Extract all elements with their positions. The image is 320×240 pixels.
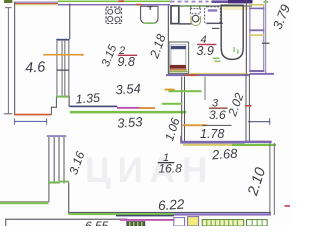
- svg-text:3.54: 3.54: [115, 81, 141, 98]
- green stub door mark: [162, 103, 182, 105]
- svg-text:6.22: 6.22: [158, 196, 186, 213]
- orange stub at opening: [165, 89, 175, 91]
- kitchen left wall upper: [69, 4, 70, 40]
- room1 left wall lower: [68, 183, 69, 214]
- room 1 bottom wall: [69, 212, 272, 217]
- bath inner top line: [174, 5, 252, 6]
- washbasin: [205, 7, 223, 29]
- svg-text:1.35: 1.35: [75, 91, 100, 107]
- room 2 label: [118, 45, 138, 69]
- wall stub under pillar: [179, 23, 192, 24]
- svg-text:3.53: 3.53: [117, 114, 144, 131]
- svg-text:4.6: 4.6: [25, 59, 47, 76]
- kitchen sink: [141, 6, 158, 24]
- svg-text:3.6: 3.6: [209, 108, 226, 122]
- svg-text:3.9: 3.9: [197, 44, 214, 58]
- kitchen-hall green opening: [169, 90, 202, 92]
- kitchen window: [56, 39, 70, 98]
- kitchen left wall lower: [69, 96, 70, 108]
- tub green dashes: [213, 47, 239, 62]
- balcony door swing (orange): [43, 54, 82, 56]
- svg-text:2.68: 2.68: [211, 146, 239, 163]
- dimension 3.79 tick: [262, 43, 270, 44]
- duct pillar: [171, 6, 179, 24]
- balcony top wall: [14, 2, 58, 6]
- lower building outline: [5, 219, 175, 226]
- shaft column: [249, 0, 268, 74]
- bottom boxes: [174, 217, 267, 226]
- hall left wall: [181, 77, 185, 142]
- washing machine: [169, 42, 189, 74]
- dimension 1.78 line: [202, 125, 232, 126]
- roof box top-left: [5, 0, 13, 3]
- room1 bay window: [47, 135, 69, 202]
- room1 lower-left green wall: [0, 201, 49, 204]
- balcony bottom red wall: [14, 114, 51, 116]
- room 4 label: [197, 34, 217, 58]
- bay step walls: [51, 97, 57, 114]
- pale yellow band behind tub: [223, 7, 251, 11]
- hatch box bottom: [127, 222, 145, 226]
- room 3 label: [209, 98, 228, 123]
- leader line room 3: [204, 77, 207, 101]
- bathroom bottom wall: [166, 73, 274, 76]
- toilet: [190, 6, 200, 26]
- bath right wall: [246, 0, 247, 74]
- bathtub: [221, 5, 243, 59]
- svg-text:6.55: 6.55: [85, 219, 109, 226]
- hall bottom wall: [180, 136, 276, 146]
- room 1 right wall: [269, 143, 275, 215]
- stove: [106, 7, 121, 23]
- kitchen bottom wall: [70, 106, 187, 114]
- bath top wall dashed: [170, 0, 253, 3]
- dimension 4.6 line: [4, 7, 13, 114]
- room 1 label: [158, 152, 182, 176]
- svg-text:9.8: 9.8: [118, 55, 135, 69]
- hall door swing orange: [183, 124, 208, 126]
- hall right wall: [245, 74, 252, 142]
- kitchen / bath wall: [168, 6, 169, 75]
- red tick right edge: [285, 205, 291, 207]
- svg-text:ЦИАН: ЦИАН: [85, 151, 214, 190]
- balcony left wall: [14, 2, 15, 114]
- balcony width dimension line: [14, 118, 47, 124]
- svg-text:1.78: 1.78: [200, 127, 224, 141]
- kitchen top wall: [58, 0, 170, 5]
- right niche dimension line: [248, 118, 270, 125]
- svg-text:16.8: 16.8: [159, 162, 183, 176]
